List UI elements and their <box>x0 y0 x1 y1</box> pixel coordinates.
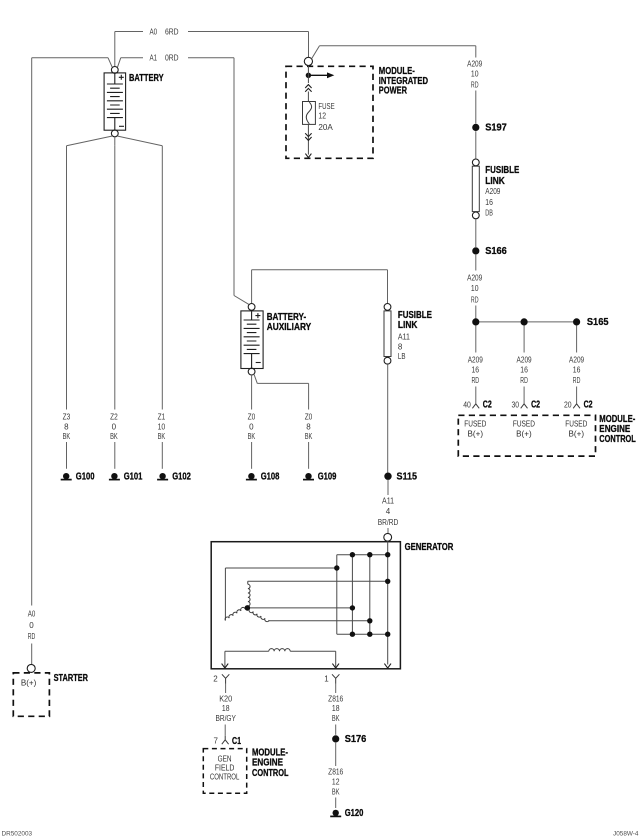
junction dots rectifier top <box>350 552 391 557</box>
wire Z1 lower <box>161 442 163 469</box>
svg-text:8: 8 <box>64 423 69 432</box>
svg-text:BR/GY: BR/GY <box>215 714 236 723</box>
label A209 10 RD upper <box>467 60 483 90</box>
stator phase wire 1 <box>225 568 336 621</box>
label Z2 0 BK <box>110 412 118 441</box>
label FUSIBLE LINK A209 16 DB <box>485 165 519 217</box>
svg-text:RD: RD <box>520 376 528 385</box>
svg-text:BK: BK <box>305 432 313 441</box>
label A209 16 RD branch 30 <box>517 355 533 385</box>
svg-text:BK: BK <box>248 432 256 441</box>
svg-text:FUSIBLE: FUSIBLE <box>485 165 519 176</box>
svg-text:20: 20 <box>564 400 572 409</box>
svg-text:BK: BK <box>158 432 166 441</box>
svg-text:1: 1 <box>324 675 329 684</box>
svg-text:GENERATOR: GENERATOR <box>405 542 454 553</box>
svg-text:RD: RD <box>573 376 581 385</box>
splice S165 <box>472 317 609 328</box>
svg-text:CONTROL: CONTROL <box>599 434 636 445</box>
svg-text:G120: G120 <box>345 808 364 819</box>
wire branch 30 <box>523 326 525 353</box>
svg-text:A209: A209 <box>569 355 585 364</box>
fuse F12 <box>303 102 316 125</box>
svg-text:0: 0 <box>249 423 254 432</box>
wire B+ vertical <box>387 541 389 664</box>
svg-text:12: 12 <box>318 112 326 121</box>
svg-text:C2: C2 <box>584 400 593 411</box>
svg-text:LB: LB <box>398 352 406 361</box>
wire K20 lower <box>224 725 226 736</box>
svg-text:CONTROL: CONTROL <box>252 768 289 779</box>
wire G108 lower <box>251 442 253 469</box>
svg-text:A209: A209 <box>467 60 483 69</box>
svg-text:LINK: LINK <box>398 320 418 331</box>
wire below fuse <box>307 124 309 154</box>
svg-text:B(+): B(+) <box>569 430 585 439</box>
svg-text:G100: G100 <box>76 472 95 483</box>
rectifier bus bottom <box>337 633 388 635</box>
svg-text:BK: BK <box>63 432 71 441</box>
svg-text:C2: C2 <box>531 400 540 411</box>
svg-text:A11: A11 <box>382 496 394 505</box>
svg-text:6RD: 6RD <box>165 28 179 37</box>
svg-text:18: 18 <box>332 704 340 713</box>
battery B1 <box>104 67 126 137</box>
svg-text:G101: G101 <box>124 472 143 483</box>
wire below S166 <box>475 255 477 271</box>
connector circle aux battery top <box>248 304 255 311</box>
svg-text:Z2: Z2 <box>110 412 118 421</box>
rectifier vertical left <box>336 555 338 635</box>
svg-text:10: 10 <box>158 423 166 432</box>
svg-text:7: 7 <box>214 737 219 746</box>
svg-text:S165: S165 <box>587 317 609 328</box>
label A0 6RD <box>150 28 179 37</box>
ground G102 <box>157 472 191 483</box>
svg-text:S197: S197 <box>485 123 507 134</box>
wire S176 down <box>335 743 337 766</box>
label Z1 10 BK <box>158 412 166 441</box>
wire S197 to link <box>475 131 477 159</box>
splice S176 <box>332 734 367 745</box>
svg-text:GEN: GEN <box>218 754 232 763</box>
MIP box <box>286 66 373 158</box>
svg-text:0: 0 <box>112 423 117 432</box>
starter box <box>13 673 49 716</box>
junction dot stator center <box>245 605 251 611</box>
splice S115 <box>384 472 417 483</box>
splice S166 <box>472 246 507 257</box>
label A209 16 RD branch 20 <box>569 355 585 385</box>
svg-text:4: 4 <box>386 507 391 516</box>
GEN FIELD CONTROL box <box>203 749 246 794</box>
svg-text:10: 10 <box>471 284 479 293</box>
svg-text:CONTROL: CONTROL <box>210 773 240 782</box>
svg-text:FUSED: FUSED <box>464 419 486 428</box>
arrow down to box edge <box>305 154 311 158</box>
svg-text:FIELD: FIELD <box>215 763 235 772</box>
connector circle aux battery bottom <box>248 368 255 375</box>
svg-text:30: 30 <box>512 400 520 409</box>
svg-text:STARTER: STARTER <box>54 673 88 684</box>
wire branch 40 <box>475 326 477 353</box>
wire to fuse <box>307 92 309 102</box>
wire to G120 <box>335 798 337 809</box>
wire Z3 lower <box>66 442 68 469</box>
svg-text:BK: BK <box>332 714 340 723</box>
svg-text:B(+): B(+) <box>21 679 37 688</box>
svg-text:2: 2 <box>213 675 218 684</box>
label A209 16 RD branch 40 <box>468 355 484 385</box>
chevrons above fuse <box>305 85 311 92</box>
pin 40 connector C2 <box>463 400 492 411</box>
wire link to S166 <box>475 219 477 247</box>
svg-text:A209: A209 <box>517 355 533 364</box>
ground G120 <box>330 808 364 819</box>
wire Z2 lower <box>114 442 116 469</box>
pin 30 connector C2 <box>512 400 541 411</box>
svg-text:LINK: LINK <box>485 176 505 187</box>
label Z816 12 BK <box>328 768 344 797</box>
svg-text:16: 16 <box>573 366 581 375</box>
fusible link A209 <box>472 159 479 219</box>
ground G108 <box>246 472 280 483</box>
label FUSIBLE LINK A11 8 LB <box>398 310 432 361</box>
svg-text:Z0: Z0 <box>305 412 313 421</box>
label GEN FIELD CONTROL <box>210 754 240 781</box>
wire Z1 <box>161 146 163 410</box>
svg-text:RD: RD <box>471 296 479 305</box>
wire Z2 <box>114 146 116 410</box>
generator box <box>211 542 400 669</box>
arrow B+ internal <box>384 664 391 669</box>
connector circle starter B+ <box>27 664 35 672</box>
wire Z816 lower <box>335 725 337 735</box>
label A209 10 RD lower <box>467 273 483 304</box>
svg-text:BR/RD: BR/RD <box>378 518 399 527</box>
wire branch 30 lower <box>523 387 525 404</box>
ground G109 <box>303 472 337 483</box>
label MODULE-ENGINE CONTROL right <box>599 414 636 445</box>
svg-text:A209: A209 <box>467 273 483 282</box>
label Z3 8 BK <box>63 412 71 441</box>
wire K20 <box>225 684 227 694</box>
svg-text:AUXILIARY: AUXILIARY <box>267 322 312 333</box>
svg-text:40: 40 <box>463 400 471 409</box>
svg-text:0: 0 <box>29 621 34 630</box>
pin 2 terminal <box>213 674 229 683</box>
splice S197 <box>472 123 507 134</box>
wire battery stem up <box>114 32 116 67</box>
junction dots rectifier bottom <box>350 632 391 637</box>
wire aux bottom split <box>252 374 309 410</box>
svg-text:Z816: Z816 <box>328 694 344 703</box>
ground G101 <box>109 472 143 483</box>
junction dot phase 1 <box>334 565 339 570</box>
pin 7 connector C1 <box>214 736 242 747</box>
svg-text:S176: S176 <box>345 734 367 745</box>
svg-text:DR502003: DR502003 <box>2 831 33 838</box>
label A11 4 BR/RD <box>378 496 399 527</box>
svg-text:S115: S115 <box>397 472 418 483</box>
wire A0 horizontal <box>115 32 309 58</box>
arrow right MIP <box>308 66 334 84</box>
svg-text:A0: A0 <box>150 28 158 37</box>
wire A1 horizontal <box>32 58 249 305</box>
arrow pin1 internal <box>332 664 339 669</box>
junction dot phase 2 <box>385 579 390 584</box>
wire MIP to A209 <box>312 46 476 59</box>
wire G109 lower <box>308 442 310 469</box>
arrow pin2 internal <box>222 664 229 669</box>
svg-text:A209: A209 <box>485 187 501 196</box>
svg-text:J058W-4: J058W-4 <box>613 831 639 838</box>
wire branch 20 <box>576 326 578 353</box>
MEC fused box <box>458 415 595 456</box>
svg-text:8: 8 <box>398 342 403 351</box>
fusible link A11 <box>384 304 391 365</box>
svg-text:16: 16 <box>485 198 493 207</box>
svg-text:S166: S166 <box>485 246 507 257</box>
svg-text:G108: G108 <box>261 472 280 483</box>
svg-text:C1: C1 <box>232 736 241 747</box>
svg-text:16: 16 <box>472 366 480 375</box>
svg-text:DB: DB <box>485 208 493 217</box>
svg-text:8: 8 <box>306 423 311 432</box>
stator coil vertical <box>248 581 250 606</box>
svg-text:RD: RD <box>471 80 479 89</box>
wire link A11 to S115 <box>387 364 389 472</box>
stator coil right arm <box>249 609 269 621</box>
svg-text:FUSED: FUSED <box>565 419 587 428</box>
svg-text:Z3: Z3 <box>63 412 71 421</box>
field coil L1 <box>269 649 290 652</box>
svg-text:18: 18 <box>222 704 230 713</box>
stator phase wire 3 (center) <box>250 607 352 609</box>
label BATTERY-AUXILIARY <box>267 312 312 333</box>
label MODULE-ENGINE CONTROL bottom <box>252 747 289 778</box>
svg-text:G109: G109 <box>318 472 337 483</box>
svg-text:FUSE: FUSE <box>318 102 334 111</box>
connector circle generator B+ <box>384 533 392 541</box>
stator phase wire 4 <box>269 620 370 622</box>
svg-text:Z1: Z1 <box>158 412 166 421</box>
svg-text:10: 10 <box>471 70 479 79</box>
svg-text:0RD: 0RD <box>165 54 179 63</box>
pin 1 terminal <box>324 674 339 683</box>
label MODULE-INTEGRATED POWER <box>379 66 428 97</box>
field winding wire <box>225 651 336 667</box>
wire aux top jumper <box>252 270 388 304</box>
rectifier bus top <box>337 554 388 556</box>
svg-text:G102: G102 <box>172 472 191 483</box>
wire to S197 <box>475 91 477 124</box>
battery B2 auxiliary <box>241 311 263 369</box>
label A1 0RD <box>150 54 179 63</box>
label FUSE 12 20A <box>318 102 334 132</box>
label K20 18 BR/GY <box>215 694 236 723</box>
junction dot phase 4 <box>367 618 372 623</box>
chevrons below fuse <box>305 133 311 140</box>
svg-text:20A: 20A <box>318 123 333 132</box>
svg-text:16: 16 <box>520 366 528 375</box>
label A0 0 RD <box>28 610 36 641</box>
svg-text:12: 12 <box>332 777 340 786</box>
wire branch 20 lower <box>576 387 578 404</box>
label FUSED B(+) x3 <box>464 419 587 438</box>
wire S115 to generator <box>387 480 389 495</box>
label Z0 8 BK <box>305 412 313 441</box>
junction dot MIP <box>306 73 311 78</box>
wire battery bottom split <box>67 136 163 146</box>
label Z816 18 BK <box>328 694 344 723</box>
svg-text:POWER: POWER <box>379 86 407 97</box>
junction dot phase 3 <box>350 605 355 610</box>
rectifier vertical mid1 <box>351 555 353 635</box>
svg-text:FUSED: FUSED <box>513 419 535 428</box>
pin 20 connector C2 <box>564 400 593 411</box>
svg-text:B(+): B(+) <box>468 430 484 439</box>
svg-text:RD: RD <box>472 376 480 385</box>
svg-text:RD: RD <box>28 632 36 641</box>
svg-text:A11: A11 <box>398 332 410 341</box>
wire Z3 <box>66 146 68 410</box>
svg-text:Z816: Z816 <box>328 768 344 777</box>
wire Z816 <box>335 684 337 694</box>
svg-text:Z0: Z0 <box>248 412 256 421</box>
svg-text:K20: K20 <box>219 694 233 703</box>
svg-text:BATTERY: BATTERY <box>129 73 164 84</box>
stator coil left arm <box>225 607 247 621</box>
svg-text:A209: A209 <box>468 355 484 364</box>
svg-text:BK: BK <box>110 432 118 441</box>
rectifier vertical mid2 <box>369 555 371 635</box>
wire starter lower <box>31 644 33 665</box>
wire S165 bus <box>476 321 577 323</box>
wire into generator B+ <box>387 528 389 533</box>
label Z0 0 BK <box>248 412 256 441</box>
svg-text:A1: A1 <box>150 54 158 63</box>
ground G100 <box>61 472 95 483</box>
wire starter drop <box>31 58 33 606</box>
svg-text:C2: C2 <box>483 400 492 411</box>
wire to S165 row <box>475 306 477 322</box>
svg-text:A0: A0 <box>28 610 36 619</box>
wire branch 40 lower <box>475 387 477 404</box>
svg-text:B(+): B(+) <box>516 430 532 439</box>
connector circle MIP <box>304 57 312 65</box>
svg-text:BK: BK <box>332 787 340 796</box>
stator phase wire 2 (coil top) <box>248 580 388 582</box>
